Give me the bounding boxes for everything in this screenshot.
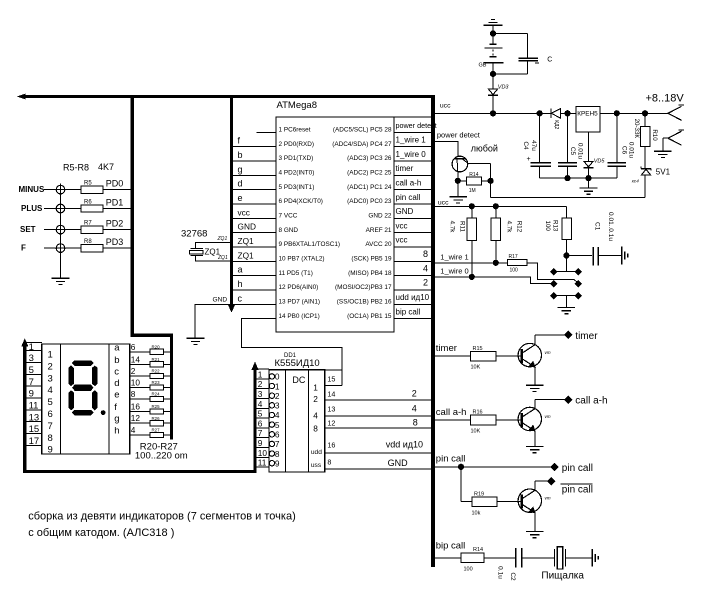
ground VT3 bbox=[526, 447, 544, 453]
svg-text:6: 6 bbox=[275, 430, 280, 440]
svg-text:9: 9 bbox=[29, 389, 34, 400]
svg-text:GB: GB bbox=[479, 63, 487, 69]
wire DD1 pin14 (1) bbox=[325, 389, 433, 400]
svg-text:R10: R10 bbox=[651, 129, 658, 141]
wire segment c pin 2 bbox=[130, 366, 170, 376]
resistor R23 bbox=[150, 380, 164, 390]
wire PSU ground rail bbox=[540, 176, 617, 195]
resistor R27 bbox=[150, 428, 164, 438]
wire F row bbox=[21, 244, 132, 253]
node PD1 bbox=[106, 198, 124, 208]
svg-text:bip call: bip call bbox=[436, 540, 466, 551]
svg-text:2: 2 bbox=[258, 379, 263, 389]
battery GB bbox=[479, 34, 504, 74]
svg-text:7: 7 bbox=[29, 377, 34, 388]
wire pin20 vcc bbox=[394, 236, 431, 247]
svg-text:17: 17 bbox=[29, 436, 40, 447]
svg-text:5: 5 bbox=[48, 397, 53, 408]
svg-text:vт: vт bbox=[545, 414, 551, 419]
svg-text:GND 22: GND 22 bbox=[368, 212, 392, 219]
svg-text:vт: vт bbox=[545, 350, 551, 355]
diode VD3 bbox=[488, 74, 509, 113]
label 1_wire 0 bbox=[440, 267, 468, 276]
svg-text:AREF 21: AREF 21 bbox=[366, 227, 392, 234]
svg-text:9: 9 bbox=[48, 445, 53, 456]
svg-text:R8: R8 bbox=[84, 239, 92, 245]
indicator digit column 1-9 bbox=[48, 350, 53, 456]
diode VD4 on rail bbox=[551, 108, 561, 129]
resistor R11 4.7K bbox=[449, 206, 477, 277]
DD1 input weight labels bbox=[311, 383, 322, 470]
wire PLUS row bbox=[21, 204, 132, 213]
svg-text:4: 4 bbox=[412, 403, 417, 413]
svg-text:любой: любой bbox=[471, 143, 498, 153]
label bip call bbox=[436, 540, 466, 551]
svg-text:10 PB7 (XTAL2): 10 PB7 (XTAL2) bbox=[279, 255, 325, 262]
resistor R13 100 bbox=[544, 218, 571, 256]
svg-text:5: 5 bbox=[275, 420, 280, 430]
svg-text:R21: R21 bbox=[152, 357, 161, 362]
svg-text:11 PD5 (T1): 11 PD5 (T1) bbox=[279, 270, 313, 277]
svg-text:pin call: pin call bbox=[562, 463, 593, 474]
svg-text:7: 7 bbox=[275, 439, 280, 449]
svg-text:pin call: pin call bbox=[436, 453, 466, 464]
label R5-R8 4K7 bbox=[63, 162, 114, 172]
svg-text:(ADC0) PC0 23: (ADC0) PC0 23 bbox=[347, 198, 392, 205]
7-segment indicator body bbox=[42, 344, 130, 454]
transistor VT4 pin call bbox=[518, 481, 551, 531]
op-amp U1 ATMega8 body bbox=[276, 100, 394, 332]
wire pin9 ZQ1 bbox=[233, 236, 276, 247]
svg-text:2: 2 bbox=[423, 278, 428, 288]
svg-text:8: 8 bbox=[275, 449, 280, 459]
diode VD5 under KREN bbox=[584, 132, 606, 178]
svg-text:PLUS: PLUS bbox=[21, 204, 43, 213]
DD1 pin15 cell bbox=[325, 370, 342, 385]
wire ucc power rail bbox=[433, 103, 668, 116]
svg-text:3: 3 bbox=[275, 401, 280, 411]
label R20-R27 bbox=[135, 441, 188, 461]
svg-text:call a-h: call a-h bbox=[436, 407, 467, 418]
ground VT1 emitter bbox=[449, 181, 467, 203]
svg-text:c: c bbox=[238, 293, 243, 303]
label +8..18V bbox=[646, 93, 685, 105]
resistor R10 bbox=[633, 113, 658, 168]
svg-text:GND: GND bbox=[388, 458, 409, 468]
svg-text:Пищалка: Пищалка bbox=[541, 571, 584, 582]
wire pin call bbox=[433, 463, 593, 474]
wire SET row bbox=[20, 225, 132, 234]
svg-text:ZQ1: ZQ1 bbox=[217, 236, 228, 242]
svg-text:12: 12 bbox=[131, 413, 141, 423]
svg-text:сборка из девяти индикаторов (: сборка из девяти индикаторов (7 сегменто… bbox=[28, 511, 296, 523]
svg-text:(ADC2) PC2 25: (ADC2) PC2 25 bbox=[347, 169, 392, 176]
svg-text:15: 15 bbox=[327, 374, 335, 383]
wire pin24 call a-h bbox=[394, 178, 431, 189]
svg-text:h: h bbox=[114, 425, 119, 436]
svg-text:R11: R11 bbox=[458, 221, 465, 232]
svg-text:7: 7 bbox=[48, 421, 53, 432]
svg-text:2: 2 bbox=[275, 391, 280, 401]
svg-text:(OC1A) PB1 15: (OC1A) PB1 15 bbox=[347, 313, 392, 320]
svg-text:4: 4 bbox=[423, 263, 428, 273]
svg-text:8: 8 bbox=[413, 418, 418, 428]
indicator segment letters a-h bbox=[114, 342, 120, 436]
wire call a-h output bbox=[535, 396, 607, 407]
7-segment digit 8. bbox=[69, 361, 105, 415]
wire DD1 pin16 vdd bbox=[325, 440, 433, 454]
wire pin27 1_wire 1 bbox=[394, 135, 431, 146]
svg-text:3: 3 bbox=[258, 389, 263, 399]
crystal ZQ1 bbox=[190, 236, 232, 261]
resistor R20 bbox=[150, 344, 164, 354]
svg-text:power detect: power detect bbox=[437, 131, 481, 140]
zener 5V1 bbox=[632, 167, 671, 198]
svg-text:1_wire 1: 1_wire 1 bbox=[440, 253, 468, 262]
svg-text:КД2: КД2 bbox=[553, 120, 559, 129]
svg-text:15: 15 bbox=[29, 424, 40, 435]
wire pin28 power detect bbox=[394, 121, 437, 132]
wire pin13 c bbox=[233, 293, 276, 304]
wire pin16 udd ид10 bbox=[394, 293, 431, 304]
resistor R15 10K bbox=[471, 346, 522, 371]
svg-text:+8..18V: +8..18V bbox=[646, 93, 685, 105]
wire pin call inverted output bbox=[535, 478, 593, 496]
svg-text:a: a bbox=[238, 265, 243, 275]
wire pin23 pin call bbox=[394, 193, 431, 204]
svg-text:R19: R19 bbox=[474, 491, 484, 497]
svg-text:ZQ1: ZQ1 bbox=[217, 255, 228, 261]
svg-text:call a-h: call a-h bbox=[396, 178, 422, 187]
svg-text:(ADC4/SDA) PC4 27: (ADC4/SDA) PC4 27 bbox=[332, 141, 392, 148]
resistor R14 100 bbox=[461, 547, 515, 573]
svg-text:100: 100 bbox=[544, 221, 551, 232]
svg-text:1M: 1M bbox=[469, 188, 476, 194]
svg-text:ZQ1: ZQ1 bbox=[238, 250, 255, 260]
regulator КРЕН5 bbox=[576, 107, 600, 132]
svg-text:g: g bbox=[238, 164, 243, 174]
transistor VT2 timer bbox=[518, 335, 551, 385]
wire pin4 g bbox=[233, 164, 276, 175]
svg-text:C5: C5 bbox=[569, 147, 576, 156]
capacitor C5 0.01u bbox=[558, 113, 583, 178]
svg-text:pin call: pin call bbox=[562, 484, 593, 495]
svg-text:(SCK) PB5 19: (SCK) PB5 19 bbox=[351, 255, 392, 262]
svg-text:10K: 10K bbox=[471, 429, 481, 435]
wire DD1 pin8 uss GND bbox=[325, 457, 433, 469]
node battery bottom junction bbox=[490, 71, 527, 76]
wire segment d pin 10 bbox=[130, 378, 170, 388]
capacitor C4 47u bbox=[522, 113, 551, 178]
wire pin2 f bbox=[233, 136, 276, 147]
wire pin8 GND bbox=[233, 222, 276, 233]
svg-text:vcc: vcc bbox=[396, 236, 408, 245]
transistor VT1 любой bbox=[452, 156, 491, 181]
svg-text:R7: R7 bbox=[84, 221, 92, 227]
svg-text:13 PD7 (AIN1): 13 PD7 (AIN1) bbox=[279, 298, 321, 305]
svg-text:2: 2 bbox=[131, 366, 136, 376]
svg-text:C: C bbox=[547, 56, 552, 63]
svg-text:3 PD1(TXD): 3 PD1(TXD) bbox=[279, 155, 314, 162]
svg-text:(ADC3) PC3 26: (ADC3) PC3 26 bbox=[347, 155, 392, 162]
wire R17 to jumper bbox=[527, 263, 579, 284]
wire timer bbox=[433, 355, 471, 357]
transistor VT3 call bbox=[518, 400, 551, 446]
svg-text:7 VCC: 7 VCC bbox=[279, 212, 298, 219]
ground VT4 bbox=[526, 532, 544, 538]
pin 1 stub wire bbox=[257, 131, 276, 133]
svg-text:C6: C6 bbox=[620, 146, 627, 155]
wire power detect bbox=[433, 142, 458, 157]
svg-text:(SS/OC1B) PB2 16: (SS/OC1B) PB2 16 bbox=[337, 298, 392, 305]
svg-text:VD5: VD5 bbox=[594, 158, 606, 164]
svg-text:e: e bbox=[114, 390, 119, 401]
svg-text:C2: C2 bbox=[509, 572, 516, 581]
ground C1 (rotated) bbox=[622, 247, 628, 265]
label timer (chip side) bbox=[436, 343, 457, 354]
svg-text:F: F bbox=[21, 244, 26, 253]
svg-text:5 PD3(INT1): 5 PD3(INT1) bbox=[279, 184, 315, 191]
wire pin22 GND bbox=[394, 207, 431, 218]
svg-text:uss: uss bbox=[311, 462, 322, 469]
svg-text:a: a bbox=[114, 342, 120, 353]
wire power-detect sense line bbox=[491, 196, 645, 198]
svg-text:14: 14 bbox=[131, 354, 141, 364]
node PD3 bbox=[106, 237, 124, 247]
svg-text:5: 5 bbox=[29, 365, 34, 376]
svg-text:ATMega8: ATMega8 bbox=[277, 100, 317, 111]
svg-text:vcc: vcc bbox=[238, 207, 250, 217]
svg-text:C4: C4 bbox=[522, 141, 529, 150]
svg-text:14 PB0 (ICP1): 14 PB0 (ICP1) bbox=[279, 313, 320, 320]
wire pin11 a bbox=[233, 265, 276, 276]
resistor R22 bbox=[150, 369, 164, 379]
resistor R24 bbox=[150, 392, 164, 402]
svg-text:(MISO) PB4 18: (MISO) PB4 18 bbox=[348, 270, 392, 277]
wire segment e pin 8 bbox=[130, 389, 170, 399]
svg-text:2: 2 bbox=[412, 389, 417, 399]
resistor R17 100 bbox=[508, 254, 527, 274]
svg-text:4K7: 4K7 bbox=[98, 162, 114, 172]
svg-text:7: 7 bbox=[258, 428, 263, 438]
wire pin25 timer bbox=[394, 164, 431, 175]
svg-text:PD3: PD3 bbox=[106, 237, 124, 247]
svg-text:4: 4 bbox=[48, 385, 53, 396]
resistor R19 10k bbox=[461, 467, 522, 517]
svg-text:5: 5 bbox=[258, 409, 263, 419]
svg-text:GND: GND bbox=[396, 207, 414, 216]
svg-text:1: 1 bbox=[258, 369, 263, 379]
node C1 junction bbox=[564, 253, 592, 258]
svg-text:call a-h: call a-h bbox=[575, 396, 607, 407]
resistor R25 bbox=[150, 404, 164, 414]
svg-text:К555ИД10: К555ИД10 bbox=[275, 358, 320, 369]
svg-text:vcc: vcc bbox=[396, 221, 408, 230]
svg-text:100: 100 bbox=[510, 268, 519, 274]
wire pin19 8 bbox=[394, 249, 431, 261]
svg-text:4.7k: 4.7k bbox=[505, 221, 512, 234]
svg-text:R23: R23 bbox=[152, 380, 161, 385]
wire top power bus bbox=[19, 94, 434, 99]
wire keypad bus (left vertical trunk to display) bbox=[132, 95, 171, 440]
svg-text:f: f bbox=[114, 402, 117, 413]
svg-text:R15: R15 bbox=[473, 346, 483, 352]
svg-text:R14: R14 bbox=[473, 547, 483, 553]
svg-text:R5-R8: R5-R8 bbox=[63, 163, 89, 173]
svg-text:VD3: VD3 bbox=[498, 85, 510, 91]
svg-text:(ADC1) PC1 24: (ADC1) PC1 24 bbox=[347, 184, 392, 191]
svg-text:(MOSI/OC2)PB3 17: (MOSI/OC2)PB3 17 bbox=[335, 284, 392, 291]
svg-text:PD1: PD1 bbox=[106, 198, 124, 208]
svg-text:12 PD6(AIN0): 12 PD6(AIN0) bbox=[279, 284, 319, 291]
svg-text:R24: R24 bbox=[152, 392, 161, 397]
svg-text:4.7k: 4.7k bbox=[449, 221, 456, 234]
svg-text:1: 1 bbox=[48, 350, 53, 361]
svg-text:R22: R22 bbox=[152, 369, 161, 374]
svg-text:2: 2 bbox=[48, 361, 53, 372]
svg-text:c: c bbox=[114, 366, 119, 377]
svg-text:ZQ1: ZQ1 bbox=[238, 236, 255, 246]
svg-text:+: + bbox=[527, 156, 531, 163]
wire 1_wire 0 bbox=[433, 274, 554, 283]
svg-text:h: h bbox=[238, 279, 243, 289]
svg-text:13: 13 bbox=[327, 404, 335, 413]
svg-text:timer: timer bbox=[436, 343, 457, 354]
svg-text:d: d bbox=[114, 378, 119, 389]
svg-text:4: 4 bbox=[131, 425, 136, 435]
svg-text:4: 4 bbox=[313, 411, 318, 421]
label любой bbox=[471, 143, 498, 153]
ground buzzer (rotated) bbox=[592, 549, 598, 567]
svg-text:pin call: pin call bbox=[396, 193, 421, 202]
svg-text:1_wire 1: 1_wire 1 bbox=[396, 135, 427, 144]
svg-text:R27: R27 bbox=[152, 428, 161, 433]
svg-text:DC: DC bbox=[292, 375, 305, 385]
svg-text:6: 6 bbox=[48, 409, 53, 420]
svg-text:4: 4 bbox=[258, 399, 263, 409]
wire segment b pin 14 bbox=[130, 354, 170, 364]
wire pin10 ZQ1 bbox=[233, 250, 276, 261]
ground VT2 bbox=[526, 385, 544, 391]
svg-text:100: 100 bbox=[464, 567, 473, 573]
resistor R26 bbox=[150, 416, 164, 426]
label call a-h (chip side) bbox=[436, 407, 467, 418]
power flag (inverted ground) bbox=[484, 19, 503, 33]
wire 1_wire 1 bbox=[433, 260, 508, 265]
svg-text:AVCC 20: AVCC 20 bbox=[365, 241, 392, 248]
wire MINUS row bbox=[19, 185, 133, 194]
svg-text:C1: C1 bbox=[593, 222, 600, 231]
ground segment-bus GND bbox=[187, 297, 232, 345]
wire segment f pin 16 bbox=[130, 402, 170, 412]
svg-text:bip call: bip call bbox=[396, 307, 421, 316]
svg-text:power detect: power detect bbox=[396, 121, 437, 130]
svg-text:R25: R25 bbox=[152, 404, 161, 409]
wire pin7 vcc bbox=[233, 207, 276, 218]
resistor R16 10K bbox=[471, 410, 522, 435]
resistor R14 1M bbox=[455, 172, 493, 194]
label power detect bbox=[437, 131, 481, 140]
svg-text:2: 2 bbox=[313, 394, 318, 404]
svg-text:vdd ид10: vdd ид10 bbox=[386, 440, 423, 450]
svg-text:10k: 10k bbox=[472, 510, 481, 516]
svg-text:9: 9 bbox=[258, 438, 263, 448]
svg-text:10K: 10K bbox=[471, 365, 481, 371]
svg-text:2 PD0(RXD): 2 PD0(RXD) bbox=[279, 141, 315, 148]
svg-text:8: 8 bbox=[313, 424, 318, 434]
label pin call (chip side) bbox=[436, 453, 466, 464]
svg-text:8: 8 bbox=[327, 457, 331, 466]
wire segment h pin 4 bbox=[130, 425, 170, 435]
svg-text:8: 8 bbox=[423, 249, 428, 259]
label 32768 bbox=[181, 228, 207, 239]
svg-text:GND: GND bbox=[238, 222, 256, 232]
op-amp U2 К555ИД10 body bbox=[269, 353, 325, 472]
svg-text:0.01u: 0.01u bbox=[628, 142, 635, 159]
svg-text:MINUS: MINUS bbox=[19, 185, 45, 194]
svg-text:timer: timer bbox=[396, 164, 414, 173]
svg-text:КРЕН5: КРЕН5 bbox=[577, 111, 598, 118]
svg-text:0: 0 bbox=[275, 372, 280, 382]
label 1_wire 1 bbox=[440, 253, 468, 262]
wire bip call bbox=[433, 557, 461, 559]
indicator left pin cells bbox=[26, 342, 42, 447]
svg-text:32768: 32768 bbox=[181, 228, 207, 239]
wire pin26 1_wire 0 bbox=[394, 150, 431, 161]
svg-text:e: e bbox=[238, 193, 243, 203]
svg-text:R12: R12 bbox=[516, 221, 523, 233]
svg-text:8: 8 bbox=[48, 433, 53, 444]
wire pin12 h bbox=[233, 279, 276, 290]
svg-text:R13: R13 bbox=[552, 220, 559, 232]
svg-text:13: 13 bbox=[29, 412, 40, 423]
svg-text:b: b bbox=[238, 150, 243, 160]
svg-text:12: 12 bbox=[327, 419, 335, 428]
svg-text:10: 10 bbox=[258, 448, 268, 458]
svg-text:0.1u: 0.1u bbox=[496, 566, 503, 579]
svg-text:SET: SET bbox=[20, 225, 36, 234]
wire pin17 2 bbox=[394, 278, 431, 290]
svg-text:0.01u: 0.01u bbox=[576, 143, 583, 160]
wire DD1 pin13 (2) bbox=[325, 403, 433, 416]
wire ucc pull-up rail bbox=[433, 199, 566, 218]
connector minus input bbox=[654, 130, 684, 158]
svg-text:1_wire 0: 1_wire 0 bbox=[396, 150, 427, 159]
buzzer Пищалка bbox=[541, 547, 592, 582]
svg-text:g: g bbox=[114, 414, 119, 425]
svg-text:1: 1 bbox=[275, 381, 280, 391]
svg-text:8 GND: 8 GND bbox=[279, 227, 299, 234]
wire segment g pin 12 bbox=[130, 413, 170, 423]
resistor R12 4.7K bbox=[491, 206, 522, 262]
wire segment-select bus (ATMega left trunk) bbox=[229, 95, 235, 312]
resistor R21 bbox=[150, 357, 164, 367]
svg-text:d: d bbox=[238, 179, 243, 189]
svg-text:R5: R5 bbox=[84, 181, 92, 187]
svg-text:14: 14 bbox=[327, 390, 335, 399]
svg-text:0.01..0.1u: 0.01..0.1u bbox=[607, 212, 614, 241]
svg-text:100..220 om: 100..220 om bbox=[135, 451, 188, 462]
svg-text:timer: timer bbox=[575, 331, 598, 342]
svg-text:R14: R14 bbox=[469, 172, 478, 178]
ATMega8 pin row texts bbox=[279, 127, 392, 320]
DD1 left pin cells bbox=[257, 369, 269, 468]
wire collector drop bbox=[490, 163, 492, 197]
svg-text:6: 6 bbox=[258, 418, 263, 428]
svg-text:R16: R16 bbox=[473, 410, 483, 416]
wire DD1 pin12 (4) bbox=[325, 418, 433, 428]
node PD0 bbox=[106, 179, 124, 189]
